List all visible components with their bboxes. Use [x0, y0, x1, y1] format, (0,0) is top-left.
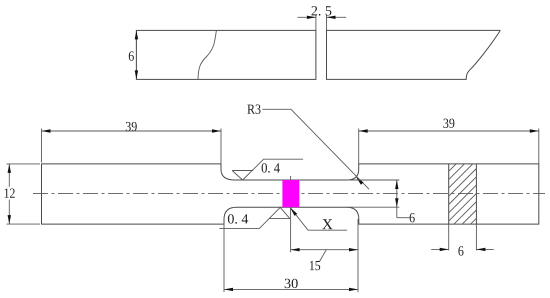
- arrow 39L left: [42, 129, 51, 132]
- arrow 30 right: [349, 288, 358, 291]
- dimension 2.5 lines: [298, 16, 316, 18]
- arrow 2.5 left: [327, 16, 336, 19]
- top view right plate outline: [327, 30, 501, 79]
- leader 15: [320, 250, 327, 262]
- dimension 12 line (broken for text): [8, 164, 10, 187]
- arrow hatch6 right: [440, 248, 449, 251]
- leader X: [290, 208, 347, 231]
- svg-text:30: 30: [284, 277, 298, 292]
- arrow 6 up: [135, 30, 138, 39]
- dimension 30 line: [224, 288, 358, 290]
- dimension 6 hatch lines: [431, 248, 449, 250]
- arrow 39R right: [530, 129, 539, 132]
- dimension 39 left extension lines: [41, 129, 43, 163]
- leader 6 gauge: [397, 217, 410, 219]
- arrow 2.5 right: [307, 16, 316, 19]
- surface finish symbol 0.4 top: [232, 159, 303, 180]
- svg-text:6: 6: [458, 245, 464, 260]
- weld center extension line: [290, 176, 292, 252]
- dimension 15 line: [291, 249, 358, 251]
- dimension 15 extension line right: [357, 219, 359, 292]
- surface finish symbol 0.4 bottom: [219, 207, 290, 228]
- dimension 39 left line: [42, 130, 222, 132]
- weld zone (magenta): [282, 180, 299, 207]
- svg-text:6: 6: [128, 50, 134, 65]
- arrow gauge6 up: [395, 180, 398, 189]
- svg-text:6: 6: [409, 211, 415, 226]
- arrow 15 right: [349, 248, 358, 251]
- dimension 30 extension line left: [223, 224, 225, 292]
- dimension 39 right line: [359, 130, 539, 132]
- weld section hatch left edge: [448, 164, 450, 224]
- top view left plate outline: [136, 30, 316, 79]
- arrow 15 left: [291, 248, 300, 251]
- dimension 6 gauge extension lines: [347, 179, 399, 181]
- arrow 30 left: [224, 288, 233, 291]
- arrow 6 down: [135, 70, 138, 79]
- arrow 39L right: [212, 129, 221, 132]
- dimension 6 gauge line: [396, 180, 398, 218]
- arrow 39R left: [359, 129, 368, 132]
- svg-text:2. 5: 2. 5: [311, 4, 332, 19]
- specimen outline (front view): [42, 164, 539, 224]
- arrow R3: [356, 177, 363, 185]
- dimension 2.5 extension lines: [315, 15, 317, 30]
- center line: [33, 193, 545, 195]
- svg-text:0. 4: 0. 4: [261, 162, 280, 177]
- leader R3: [262, 109, 369, 189]
- dimension 39 right extension lines: [358, 129, 360, 164]
- svg-text:X: X: [322, 217, 333, 233]
- svg-text:39: 39: [443, 117, 455, 132]
- arrow gauge6 down: [395, 198, 398, 207]
- svg-text:0. 4: 0. 4: [227, 213, 248, 228]
- dimension 6 (plate thickness) line: [135, 30, 137, 79]
- arrow hatch6 left: [476, 248, 485, 251]
- svg-text:12: 12: [4, 187, 16, 202]
- arrow 12 down: [8, 215, 11, 224]
- weld section hatch right edge: [475, 164, 477, 224]
- svg-text:15: 15: [309, 259, 321, 274]
- break line in left plate: [198, 31, 216, 80]
- svg-text:39: 39: [125, 120, 137, 135]
- hatch lines: [449, 164, 477, 224]
- svg-text:R3: R3: [247, 103, 261, 118]
- dimension 6 hatch extension lines: [448, 224, 450, 250]
- arrow 12 up: [8, 164, 11, 173]
- dimension 12 extension lines: [7, 163, 41, 165]
- arrow X: [290, 208, 297, 216]
